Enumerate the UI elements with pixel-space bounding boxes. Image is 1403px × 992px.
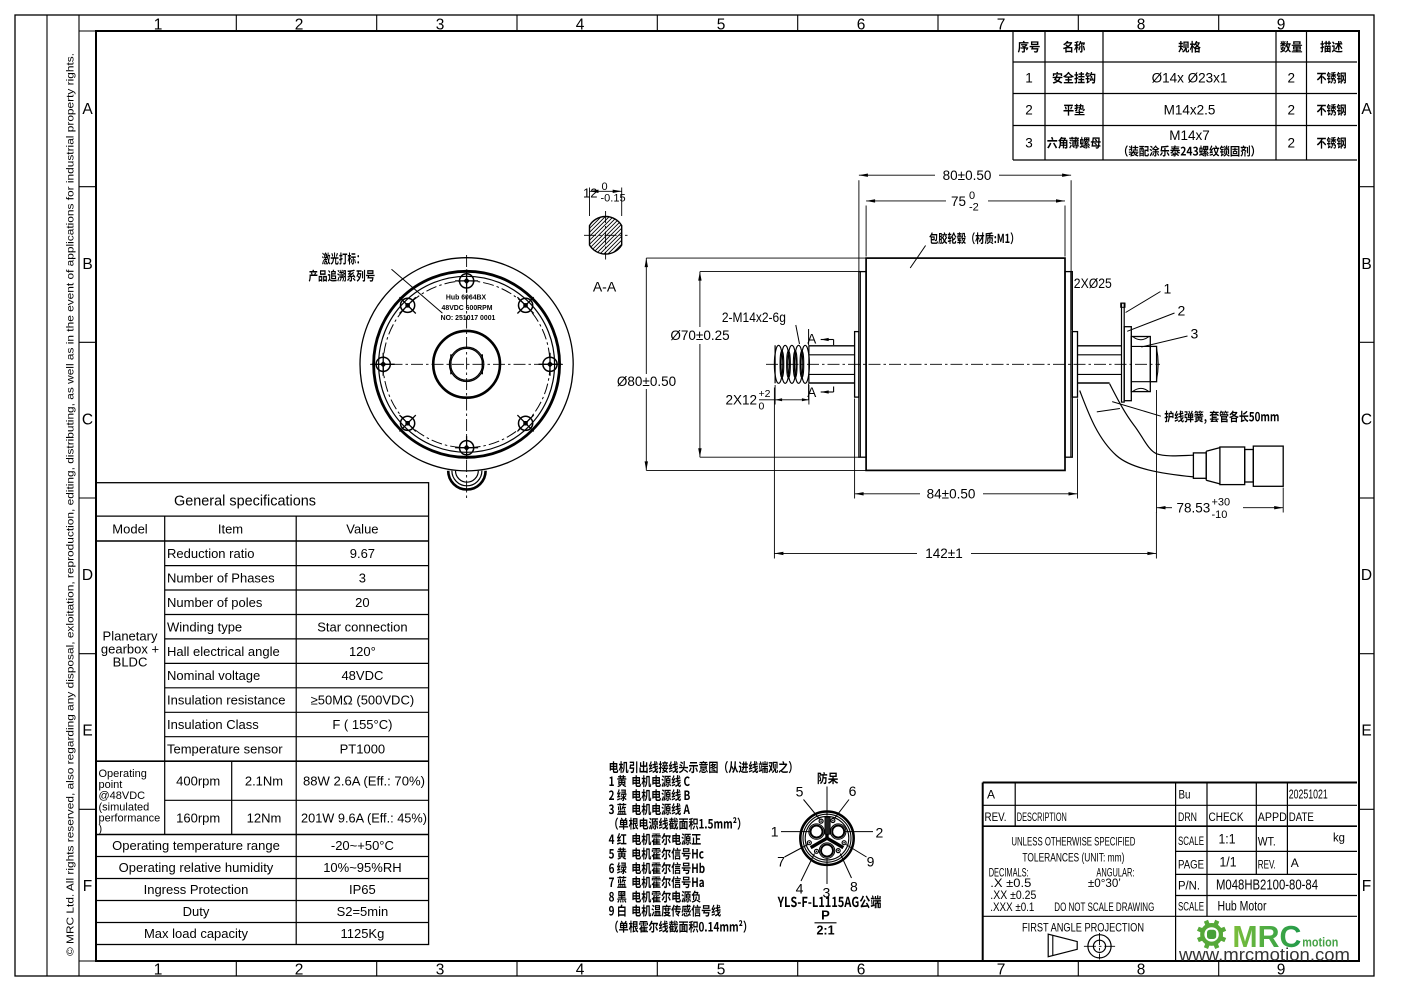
front view outer circle bbox=[360, 258, 573, 471]
svg-text:F ( 155°C): F ( 155°C) bbox=[332, 717, 392, 732]
front view centerline vertical bbox=[466, 255, 468, 498]
svg-text:A: A bbox=[807, 331, 816, 346]
svg-text:+30: +30 bbox=[1212, 497, 1231, 509]
svg-text:D: D bbox=[82, 567, 93, 584]
svg-text:B: B bbox=[1361, 256, 1371, 273]
svg-text:120°: 120° bbox=[349, 644, 376, 659]
svg-text:PAGE: PAGE bbox=[1178, 860, 1204, 872]
svg-text:Max load capacity: Max load capacity bbox=[144, 926, 249, 941]
svg-text:DO NOT SCALE DRAWING: DO NOT SCALE DRAWING bbox=[1054, 902, 1154, 914]
right shaft lines bbox=[1078, 345, 1122, 347]
svg-text:3: 3 bbox=[1025, 136, 1033, 151]
svg-text:1: 1 bbox=[154, 961, 163, 978]
svg-text:5: 5 bbox=[717, 16, 726, 33]
pin 1 big bbox=[809, 824, 824, 839]
svg-text:E: E bbox=[1361, 722, 1371, 739]
top zone ticks bbox=[235, 15, 237, 31]
front view rim circle thick bbox=[374, 271, 560, 457]
svg-text:DESCRIPTION: DESCRIPTION bbox=[1017, 812, 1067, 824]
svg-text:Hub 6064BX: Hub 6064BX bbox=[446, 294, 487, 301]
section arrows A-A bbox=[821, 339, 834, 341]
svg-text:D: D bbox=[1361, 567, 1372, 584]
svg-text:20251021: 20251021 bbox=[1289, 788, 1328, 802]
svg-text:Operating temperature range: Operating temperature range bbox=[112, 838, 280, 853]
svg-text:1: 1 bbox=[1025, 71, 1033, 86]
dimension O70+-0.25 bbox=[700, 271, 859, 273]
bottom zone ticks bbox=[235, 961, 237, 976]
svg-text:General specifications: General specifications bbox=[174, 493, 316, 510]
label rubber hub bbox=[929, 232, 938, 244]
copyright column line bbox=[78, 15, 80, 976]
svg-text:2: 2 bbox=[1025, 103, 1033, 118]
cable guard leader bbox=[1112, 402, 1161, 417]
pin 2 big bbox=[831, 824, 846, 839]
svg-text:A: A bbox=[1291, 856, 1299, 870]
cable outer edge bbox=[1080, 391, 1194, 477]
cable inner edge bbox=[1110, 384, 1194, 456]
svg-text:7: 7 bbox=[997, 961, 1006, 978]
svg-text:kg: kg bbox=[1333, 833, 1345, 845]
svg-text:20: 20 bbox=[355, 595, 369, 610]
svg-text:6: 6 bbox=[857, 16, 866, 33]
svg-text:REV.: REV. bbox=[1258, 860, 1276, 872]
key slot bbox=[825, 817, 830, 834]
svg-text:84±0.50: 84±0.50 bbox=[927, 486, 976, 501]
svg-text:0: 0 bbox=[602, 181, 608, 193]
svg-text:Ø70±0.25: Ø70±0.25 bbox=[670, 328, 729, 343]
item leader 1 bbox=[1126, 292, 1161, 313]
svg-text:2XØ25: 2XØ25 bbox=[1074, 276, 1112, 291]
dimension 75 0/-2 bbox=[865, 206, 867, 257]
bottom boss arcs bbox=[448, 471, 485, 490]
front view centerline horizontal bbox=[370, 363, 563, 365]
left shaft lines bbox=[809, 345, 855, 347]
general specifications table bbox=[96, 483, 429, 945]
laser marking leader bbox=[392, 269, 443, 313]
wire list text block bbox=[610, 761, 619, 773]
svg-text:1: 1 bbox=[771, 824, 779, 840]
svg-text:CHECK: CHECK bbox=[1209, 812, 1244, 824]
svg-text:Reduction ratio: Reduction ratio bbox=[167, 546, 254, 561]
right row ticks bbox=[1359, 186, 1374, 188]
svg-text:Value: Value bbox=[346, 522, 378, 537]
svg-text:A-A: A-A bbox=[593, 279, 617, 295]
svg-text:C: C bbox=[1361, 411, 1372, 428]
flat washer item2 bbox=[1124, 327, 1131, 401]
svg-text:Model: Model bbox=[112, 522, 148, 537]
svg-text:Bu: Bu bbox=[1179, 788, 1191, 802]
projection target symbol bbox=[1088, 935, 1111, 958]
left row ticks bbox=[79, 186, 96, 188]
svg-text:M14x2.5: M14x2.5 bbox=[1164, 103, 1216, 118]
zone strip corner segments bbox=[79, 30, 96, 32]
svg-text:): ) bbox=[99, 823, 103, 835]
svg-text:2: 2 bbox=[1178, 303, 1186, 319]
svg-text:±0°30’: ±0°30’ bbox=[1088, 878, 1121, 890]
dimension O80+-0.50 left bbox=[646, 257, 866, 259]
svg-text:SCALE: SCALE bbox=[1178, 902, 1204, 914]
svg-text:1:1: 1:1 bbox=[1219, 832, 1236, 847]
svg-text:48VDC: 48VDC bbox=[341, 668, 383, 683]
dimension 142+-1 bbox=[773, 388, 775, 559]
section cut line A bbox=[808, 329, 810, 346]
pin leaders and numbers bbox=[781, 831, 810, 833]
svg-text:2: 2 bbox=[876, 824, 884, 840]
svg-text:Temperature sensor: Temperature sensor bbox=[167, 742, 283, 757]
svg-text:A: A bbox=[1361, 101, 1372, 118]
svg-text:WT.: WT. bbox=[1258, 837, 1276, 849]
svg-text:PT1000: PT1000 bbox=[340, 742, 386, 757]
cable guard label bbox=[1165, 411, 1174, 423]
cable guard boundary bbox=[1097, 409, 1120, 412]
svg-text:S2=5min: S2=5min bbox=[337, 904, 389, 919]
svg-text:P/N.: P/N. bbox=[1178, 881, 1200, 893]
svg-text:Ingress Protection: Ingress Protection bbox=[144, 882, 249, 897]
connector taper bbox=[1206, 448, 1220, 484]
svg-text:SCALE: SCALE bbox=[1178, 836, 1204, 848]
svg-text:7: 7 bbox=[777, 854, 785, 870]
svg-text:Insulation resistance: Insulation resistance bbox=[167, 693, 286, 708]
svg-text:6: 6 bbox=[849, 783, 857, 799]
shaft double-flat profile bbox=[451, 348, 483, 380]
svg-text:201W 9.6A (Eff.: 45%): 201W 9.6A (Eff.: 45%) bbox=[301, 810, 427, 825]
connector part number bbox=[778, 897, 785, 907]
svg-text:@48VDC: @48VDC bbox=[99, 790, 146, 802]
svg-text:NO: 251017 0001: NO: 251017 0001 bbox=[441, 315, 496, 322]
screws on bolt circle bbox=[539, 353, 562, 376]
svg-text:1: 1 bbox=[154, 16, 163, 33]
svg-text:3: 3 bbox=[359, 570, 366, 585]
laser marking label bbox=[322, 252, 330, 264]
safety hook plate item1 bbox=[1122, 303, 1125, 402]
svg-text:12Nm: 12Nm bbox=[247, 810, 282, 825]
svg-text:-20~+50°C: -20~+50°C bbox=[331, 838, 394, 853]
svg-text:Ø14x Ø23x1: Ø14x Ø23x1 bbox=[1152, 71, 1228, 86]
svg-text:FIRST ANGLE PROJECTION: FIRST ANGLE PROJECTION bbox=[1022, 921, 1144, 935]
left boss bbox=[855, 332, 859, 398]
dimension 80+-0.50 bbox=[858, 180, 860, 330]
svg-text:400rpm: 400rpm bbox=[176, 774, 220, 789]
svg-text:12: 12 bbox=[583, 185, 597, 200]
svg-text:F: F bbox=[83, 878, 92, 895]
parts table grid bbox=[1013, 61, 1357, 63]
connector face ring 3 bbox=[805, 816, 849, 860]
dimension 84+-0.50 bbox=[854, 399, 856, 499]
svg-text:Hub Motor: Hub Motor bbox=[1218, 899, 1267, 914]
svg-text:2: 2 bbox=[295, 961, 304, 978]
svg-text:1125Kg: 1125Kg bbox=[340, 926, 384, 941]
right cover plate bbox=[1065, 272, 1072, 458]
svg-text:Nominal voltage: Nominal voltage bbox=[167, 668, 260, 683]
svg-text:9: 9 bbox=[1277, 16, 1286, 33]
svg-text:2:1: 2:1 bbox=[816, 924, 834, 938]
svg-text:BLDC: BLDC bbox=[113, 654, 148, 669]
svg-text:Number of Phases: Number of Phases bbox=[167, 570, 275, 585]
svg-text:5: 5 bbox=[717, 961, 726, 978]
svg-text:Item: Item bbox=[218, 522, 243, 537]
svg-text:Star connection: Star connection bbox=[317, 619, 407, 634]
svg-text:3: 3 bbox=[436, 961, 445, 978]
hex nut item3 bbox=[1131, 337, 1150, 392]
svg-text:E: E bbox=[82, 722, 92, 739]
connector body bbox=[1220, 447, 1245, 485]
svg-text:160rpm: 160rpm bbox=[176, 810, 220, 825]
svg-text:88W 2.6A (Eff.: 70%): 88W 2.6A (Eff.: 70%) bbox=[303, 774, 425, 789]
svg-text:P: P bbox=[821, 908, 830, 923]
dimension 12 0/-0.15 bbox=[589, 188, 591, 217]
connector face ring 2 bbox=[803, 814, 851, 862]
hub outer circle bbox=[433, 331, 500, 398]
svg-text:48VDC 600RPM: 48VDC 600RPM bbox=[442, 305, 493, 312]
left cover plate bbox=[859, 272, 866, 458]
projection frustum symbol bbox=[1048, 934, 1077, 957]
section A-A centerlines bbox=[605, 211, 607, 260]
svg-text:A: A bbox=[82, 101, 93, 118]
connector ring bbox=[1245, 450, 1254, 483]
svg-text:2X12: 2X12 bbox=[725, 393, 757, 408]
svg-text:1/1: 1/1 bbox=[1220, 855, 1237, 870]
svg-text:Operating relative humidity: Operating relative humidity bbox=[119, 860, 274, 875]
svg-text:1: 1 bbox=[1164, 281, 1172, 297]
svg-text:Hall electrical angle: Hall electrical angle bbox=[167, 644, 280, 659]
title block grid bbox=[982, 783, 984, 961]
parts table header bbox=[1018, 41, 1029, 53]
dimension 78.53 +30/-10 bbox=[1156, 390, 1158, 513]
svg-text:4: 4 bbox=[796, 881, 804, 897]
svg-text:UNLESS OTHERWISE SPECIFIED: UNLESS OTHERWISE SPECIFIED bbox=[1011, 837, 1135, 849]
svg-text:TOLERANCES (UNIT: mm): TOLERANCES (UNIT: mm) bbox=[1022, 853, 1124, 865]
svg-text:© MRC Ltd. All rights reserved: © MRC Ltd. All rights reserved, also reg… bbox=[65, 53, 77, 956]
connector end cap bbox=[1253, 446, 1283, 486]
svg-text:-2: -2 bbox=[969, 201, 979, 213]
svg-text:2: 2 bbox=[1287, 136, 1295, 151]
svg-text:Ø80±0.50: Ø80±0.50 bbox=[617, 374, 676, 389]
svg-text:A: A bbox=[987, 788, 995, 802]
thin hex nut item3 second bbox=[1150, 346, 1156, 381]
svg-text:2-M14x2-6g: 2-M14x2-6g bbox=[722, 310, 786, 325]
MRC logo gear bbox=[1200, 923, 1223, 946]
svg-text:2: 2 bbox=[1287, 71, 1295, 86]
svg-text:.X ±0.5: .X ±0.5 bbox=[990, 878, 1031, 890]
svg-text:2.1Nm: 2.1Nm bbox=[245, 774, 283, 789]
divider bars bbox=[825, 819, 828, 838]
connector sleeve bbox=[1193, 453, 1206, 478]
svg-text:Number of poles: Number of poles bbox=[167, 595, 263, 610]
svg-text:4: 4 bbox=[576, 961, 585, 978]
right boss bbox=[1072, 332, 1077, 398]
svg-text:.XX ±0.25: .XX ±0.25 bbox=[990, 890, 1036, 902]
pin 3 big bbox=[819, 843, 834, 858]
svg-text:7: 7 bbox=[997, 16, 1006, 33]
front view rim inner circle bbox=[379, 276, 555, 452]
tire body rectangle bbox=[866, 258, 1065, 470]
svg-text:4: 4 bbox=[576, 16, 585, 33]
svg-text:0: 0 bbox=[969, 190, 975, 202]
svg-text:-0.15: -0.15 bbox=[601, 192, 626, 204]
svg-text:B: B bbox=[82, 256, 92, 273]
svg-text:REV.: REV. bbox=[985, 812, 1007, 824]
item leader 2 bbox=[1127, 313, 1174, 331]
svg-text:M14x7: M14x7 bbox=[1169, 128, 1210, 143]
dimension 2X12 +2/0 bbox=[774, 385, 776, 405]
hub bore circle bbox=[449, 347, 483, 381]
svg-text:78.53: 78.53 bbox=[1177, 501, 1211, 516]
svg-text:8: 8 bbox=[1137, 16, 1146, 33]
svg-text:DATE: DATE bbox=[1289, 812, 1314, 824]
svg-text:9.67: 9.67 bbox=[350, 546, 375, 561]
left margin column line bbox=[46, 15, 48, 976]
svg-text:IP65: IP65 bbox=[349, 882, 376, 897]
svg-text:3: 3 bbox=[436, 16, 445, 33]
svg-text:0: 0 bbox=[759, 401, 765, 413]
svg-text:Insulation Class: Insulation Class bbox=[167, 717, 259, 732]
svg-text:Duty: Duty bbox=[183, 904, 210, 919]
svg-text:5: 5 bbox=[796, 784, 804, 800]
bolt circle dashed bbox=[383, 281, 550, 448]
svg-text:142±1: 142±1 bbox=[925, 546, 962, 561]
connector face outer circle bbox=[800, 812, 853, 865]
svg-text:8: 8 bbox=[1137, 961, 1146, 978]
side view centerline bbox=[766, 363, 1160, 365]
svg-text:75: 75 bbox=[951, 194, 966, 209]
svg-text:10%~95%RH: 10%~95%RH bbox=[323, 860, 401, 875]
svg-text:DRN: DRN bbox=[1178, 812, 1197, 824]
svg-text:80±0.50: 80±0.50 bbox=[943, 168, 992, 183]
svg-text:-10: -10 bbox=[1212, 509, 1228, 521]
small pins bbox=[819, 819, 823, 823]
svg-text:2: 2 bbox=[295, 16, 304, 33]
svg-text:≥50MΩ (500VDC): ≥50MΩ (500VDC) bbox=[311, 693, 415, 708]
key label bbox=[818, 772, 828, 784]
svg-text:performance: performance bbox=[99, 813, 161, 825]
svg-text:.XXX ±0.1: .XXX ±0.1 bbox=[990, 902, 1034, 914]
item leader 3 bbox=[1141, 336, 1187, 347]
svg-text:2: 2 bbox=[1287, 103, 1295, 118]
svg-text:Winding type: Winding type bbox=[167, 619, 242, 634]
svg-text:C: C bbox=[82, 411, 93, 428]
svg-text:APPD: APPD bbox=[1258, 812, 1287, 824]
svg-text:8: 8 bbox=[850, 879, 858, 895]
svg-text:+2: +2 bbox=[759, 388, 771, 400]
svg-text:3: 3 bbox=[1191, 326, 1199, 342]
svg-text:6: 6 bbox=[857, 961, 866, 978]
svg-text:www.mrcmotion.com: www.mrcmotion.com bbox=[1178, 945, 1350, 965]
threaded shaft M14 bbox=[774, 345, 809, 383]
svg-text:F: F bbox=[1362, 878, 1371, 895]
svg-text:M048HB2100-80-84: M048HB2100-80-84 bbox=[1216, 878, 1318, 894]
svg-text:9: 9 bbox=[867, 854, 875, 870]
